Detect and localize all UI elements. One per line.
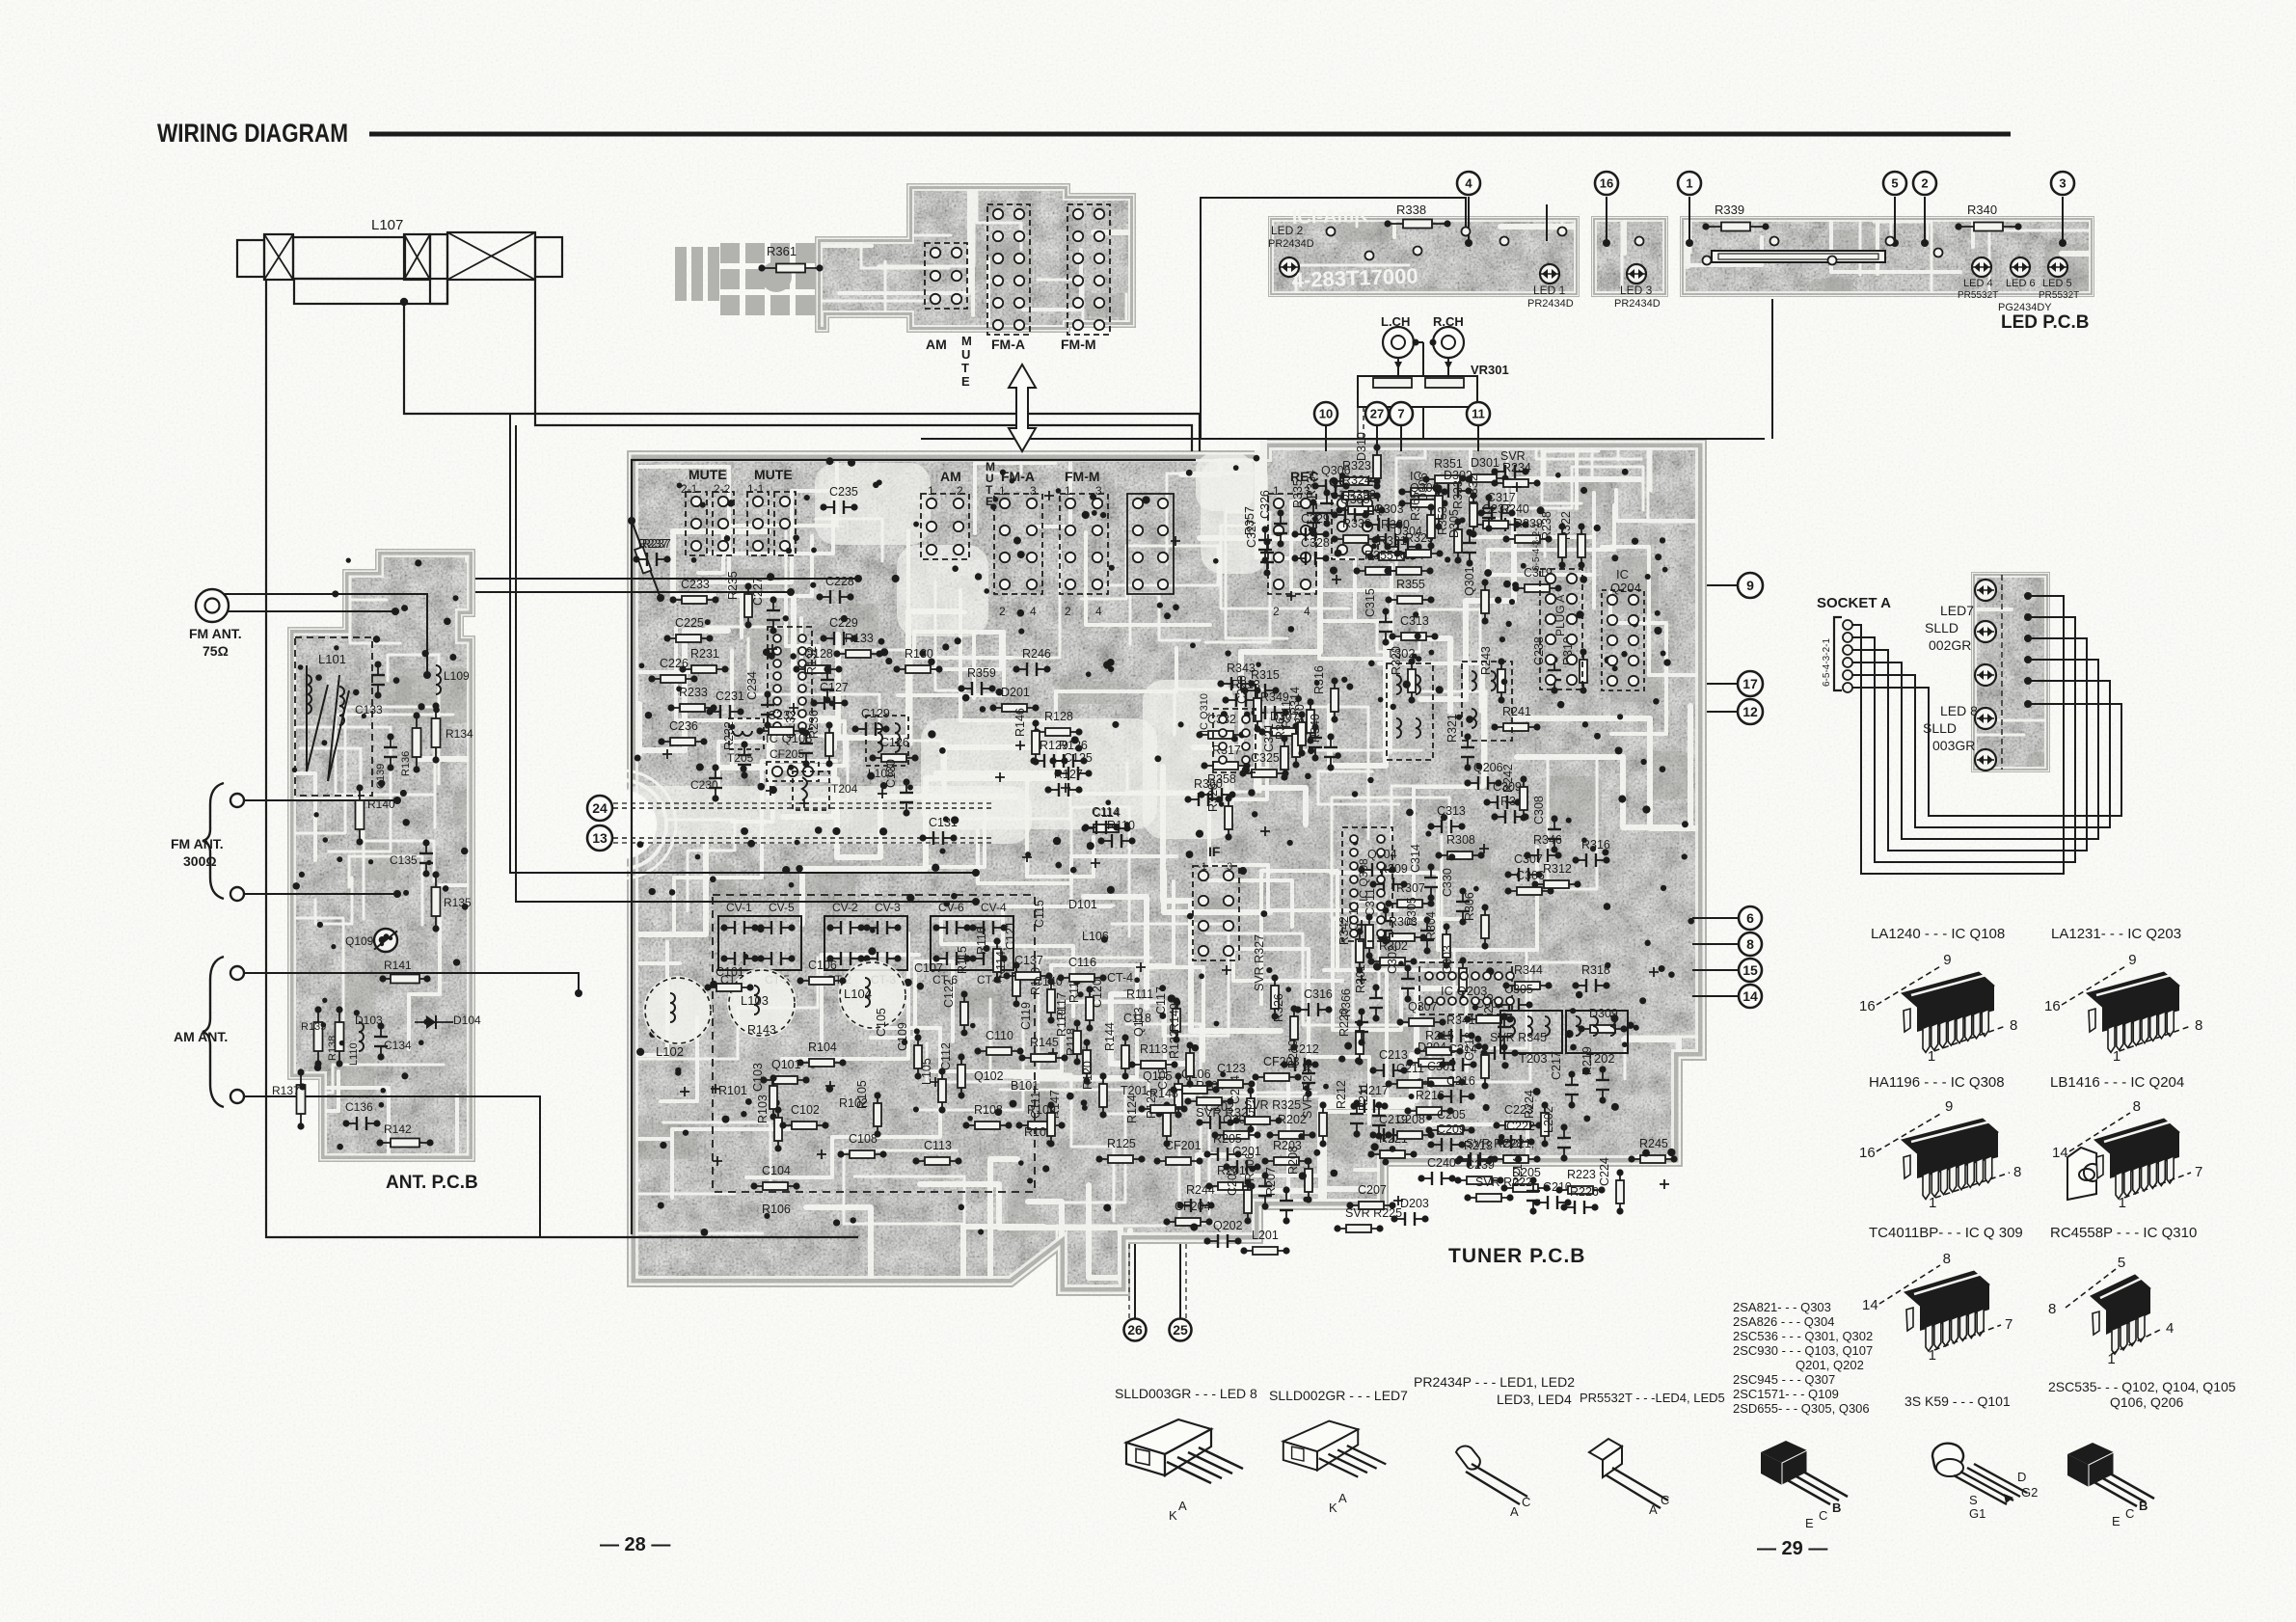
svg-text:C122: C122 [942,979,956,1008]
svg-text:R144: R144 [1103,1022,1117,1051]
svg-text:C233: C233 [681,578,710,591]
PCB region led2 [1497,81,1734,353]
svg-text:R340: R340 [1967,203,1997,217]
svg-text:D: D [2017,1470,2026,1484]
svg-text:C217: C217 [1550,1051,1563,1080]
resistor R137 [300,1072,302,1126]
svg-text:C133: C133 [355,703,383,716]
svg-text:C121: C121 [1004,921,1017,950]
svg-text:7: 7 [1397,407,1404,421]
svg-text:C305: C305 [1504,983,1533,996]
svg-text:FM ANT.: FM ANT. [171,836,224,852]
svg-text:2SC1571- - - Q109: 2SC1571- - - Q109 [1733,1387,1839,1401]
svg-text:C235: C235 [829,485,858,499]
svg-text:7: 7 [2195,1164,2202,1180]
connector block AM (top) [925,243,967,309]
wire L107 to tuner top [404,304,1200,451]
svg-text:R331: R331 [1378,534,1407,548]
svg-text:SLLD003GR - - - LED 8: SLLD003GR - - - LED 8 [1115,1386,1257,1401]
connector block FM-A (top) [987,204,1030,335]
svg-text:C308: C308 [1532,796,1546,825]
svg-text:C106: C106 [808,959,837,972]
svg-text:HA1196 - - - IC Q308: HA1196 - - - IC Q308 [1869,1074,2005,1091]
svg-text:C231: C231 [716,689,744,703]
T204 [793,771,829,810]
L102 [643,976,713,1045]
svg-text:PR2434D: PR2434D [1527,298,1574,310]
svg-text:R143: R143 [747,1023,776,1037]
connector block FM-A [994,494,1042,594]
svg-text:L110: L110 [348,1042,360,1066]
svg-text:C126: C126 [880,736,909,749]
svg-text:C314: C314 [1409,844,1422,873]
svg-text:L105: L105 [920,1058,933,1085]
svg-text:T203: T203 [1519,1051,1548,1066]
svg-text:A: A [1178,1499,1187,1513]
svg-text:R238: R238 [1540,511,1553,540]
svg-text:D305: D305 [1447,509,1461,538]
svg-text:D203: D203 [1400,1197,1429,1210]
svg-text:D301: D301 [1471,456,1499,470]
svg-text:11: 11 [1472,407,1485,421]
wire left vertical run [266,279,858,1237]
svg-text:C232: C232 [768,709,797,722]
brace fm300 [203,783,224,899]
svg-text:TUNER P.C.B: TUNER P.C.B [1448,1245,1585,1267]
svg-text:PR5532T: PR5532T [2039,290,2079,301]
PCB region ant [115,450,581,1338]
svg-text:2SC930 - - - Q103, Q107: 2SC930 - - - Q103, Q107 [1733,1343,1873,1358]
svg-text:C209: C209 [1437,1122,1466,1136]
circled callouts top [1457,172,1480,195]
svg-text:C111: C111 [1029,1092,1042,1119]
resistor R138 [338,1010,340,1064]
connector block AM [921,494,969,559]
svg-text:R242: R242 [1501,764,1515,793]
svg-text:R125: R125 [1107,1137,1136,1150]
svg-text:C102: C102 [791,1103,820,1117]
svg-text:C114: C114 [1092,805,1120,819]
svg-text:1: 1 [928,484,934,498]
svg-text:2SC945 - - - Q307: 2SC945 - - - Q307 [1733,1372,1835,1387]
led strip pads [1327,228,1336,236]
svg-text:K: K [1329,1500,1337,1515]
svg-text:R308: R308 [1446,833,1475,847]
svg-text:R119: R119 [1055,1009,1068,1037]
svg-text:25: 25 [1173,1322,1188,1338]
capacitor C133 [377,664,379,675]
svg-text:R243: R243 [1479,646,1493,675]
svg-text:C125: C125 [1064,751,1093,765]
resistor R135 [435,875,437,929]
svg-text:L201: L201 [1252,1229,1279,1242]
svg-text:R236: R236 [807,710,821,739]
svg-text:10: 10 [1319,407,1333,421]
svg-text:C208: C208 [1396,1113,1425,1126]
terminal FM ANT 300 [230,794,244,807]
wire right vertical [1771,299,1773,439]
svg-text:CV-5: CV-5 [769,901,795,914]
svg-text:LED 8: LED 8 [1940,703,1978,718]
svg-text:C320: C320 [1235,675,1249,704]
svg-text:L104: L104 [844,987,872,1001]
svg-text:8: 8 [2010,1017,2017,1034]
svg-text:L101: L101 [318,652,346,666]
resistor R340 [1958,226,2018,228]
TO92 for list [1761,1441,1848,1504]
svg-text:C115: C115 [1033,900,1046,928]
svg-text:CT-4: CT-4 [1107,971,1133,985]
svg-text:6-5-4-3-2-1: 6-5-4-3-2-1 [1531,523,1542,571]
IC Q308 block [1342,827,1392,941]
svg-text:C216: C216 [1446,1074,1475,1088]
3SK59 drawing [1932,1444,2027,1504]
svg-text:C303: C303 [1441,945,1454,974]
svg-text:LED7: LED7 [1940,603,1974,618]
svg-text:C205: C205 [1437,1108,1466,1122]
svg-text:Q105: Q105 [1143,1069,1173,1083]
wire junction [400,298,408,306]
svg-text:R127: R127 [1054,768,1083,781]
svg-text:C129: C129 [861,707,890,720]
svg-text:FM ANT.: FM ANT. [189,626,242,641]
svg-text:14: 14 [1862,1297,1878,1313]
svg-text:R223: R223 [1567,1168,1596,1181]
svg-text:A: A [1510,1504,1519,1519]
svg-text:PR2434D: PR2434D [1614,298,1661,310]
svg-text:8: 8 [1943,1251,1951,1267]
svg-text:LED 3: LED 3 [1620,284,1653,297]
svg-text:U: U [961,347,970,362]
inductor L110 [359,1022,364,1032]
svg-text:26: 26 [1127,1322,1143,1338]
top fragment pad grid [720,243,740,263]
IC Q108 [768,627,812,729]
svg-text:R205: R205 [1213,1132,1242,1146]
svg-text:L106: L106 [1082,930,1109,943]
svg-text:FM-A: FM-A [1001,469,1035,484]
svg-text:7: 7 [2005,1316,2012,1333]
svg-text:C137: C137 [1014,954,1043,967]
svg-text:CV-6: CV-6 [938,901,964,914]
svg-text:C207: C207 [1358,1183,1387,1197]
svg-text:9: 9 [1945,1098,1953,1115]
svg-text:R365: R365 [1409,492,1422,521]
svg-text:R333: R333 [1451,480,1465,509]
svg-text:R244: R244 [1186,1183,1215,1197]
svg-text:3: 3 [1227,861,1232,873]
svg-text:C107: C107 [914,961,943,975]
IC LA1240 drawing [1877,966,1940,1005]
VR301 pots [1358,376,1477,407]
svg-text:14: 14 [1742,988,1758,1004]
svg-text:L103: L103 [741,993,769,1008]
svg-text:D201: D201 [1001,686,1030,699]
inductor L107 structure [237,240,264,277]
T203 T202 [1500,1011,1562,1053]
capacitor C135 [425,843,427,853]
svg-text:4: 4 [1030,605,1037,618]
svg-text:3S K59 - - - Q101: 3S K59 - - - Q101 [1904,1393,2011,1409]
svg-text:C218: C218 [1463,1032,1476,1061]
svg-text:R110: R110 [1107,819,1135,832]
svg-text:D101: D101 [1068,898,1097,911]
svg-text:C307: C307 [1514,852,1543,866]
svg-text:FM-M: FM-M [1065,469,1100,484]
svg-text:300Ω: 300Ω [183,853,217,869]
svg-text:R235: R235 [726,571,740,600]
resistor R361 [762,267,820,269]
light patches tuner [568,439,1268,879]
svg-text:R113,: R113, [1140,1042,1171,1056]
svg-text:4: 4 [1465,176,1472,191]
svg-text:C302: C302 [1386,945,1399,974]
svg-text:3: 3 [1030,484,1037,498]
svg-text:WIRING DIAGRAM: WIRING DIAGRAM [157,119,348,148]
svg-text:4-283T17000: 4-283T17000 [1291,263,1418,292]
svg-text:E: E [2112,1514,2120,1528]
svg-text:C: C [2125,1506,2134,1521]
svg-text:— 28 —: — 28 — [600,1534,670,1555]
svg-text:R326: R326 [1272,993,1285,1022]
svg-text:C103: C103 [751,1063,765,1092]
svg-text:R361: R361 [767,244,797,258]
svg-text:C226: C226 [660,657,689,670]
svg-text:1: 1 [1065,484,1071,498]
svg-text:C327: C327 [1245,519,1258,548]
svg-text:C236: C236 [669,719,698,733]
svg-text:ICI-AmK: ICI-AmK [1291,204,1368,229]
capacitor C134 [380,1026,382,1037]
svg-text:Q204: Q204 [1610,581,1641,595]
svg-text:IF: IF [1208,844,1221,859]
plus marks [1136,962,1146,972]
resistor R136 [416,716,418,770]
svg-text:1: 1 [1929,1195,1936,1211]
svg-text:2: 2 [999,605,1006,618]
svg-text:PR5532T: PR5532T [1958,290,1998,301]
svg-text:R312: R312 [1543,862,1572,876]
PCB region tuner [504,327,1746,1619]
svg-text:C127: C127 [820,681,849,694]
svg-text:R124: R124 [1125,1095,1139,1123]
svg-text:LB1416 - - - IC Q204: LB1416 - - - IC Q204 [2050,1074,2184,1091]
svg-text:L202: L202 [1542,1106,1555,1133]
svg-text:R304: R304 [1424,911,1438,940]
svg-text:C108: C108 [849,1132,878,1146]
svg-text:R215: R215 [1425,1029,1454,1042]
svg-text:4: 4 [1304,605,1310,618]
svg-text:AM ANT.: AM ANT. [174,1029,228,1044]
svg-text:R108: R108 [974,1103,1003,1117]
svg-text:RC4558P - - - IC Q310: RC4558P - - - IC Q310 [2050,1225,2197,1241]
svg-text:1: 1 [2113,1048,2120,1065]
T302 box [1387,663,1433,760]
svg-text:C224: C224 [1598,1157,1611,1186]
svg-text:MUTE: MUTE [689,467,727,482]
svg-text:SLLD002GR - - - LED7: SLLD002GR - - - LED7 [1269,1388,1408,1403]
svg-text:R335: R335 [1291,479,1305,508]
svg-text:C225: C225 [675,616,704,630]
svg-text:13: 13 [592,830,608,846]
inductor L101 dashed box [295,637,372,796]
svg-text:R346: R346 [1533,833,1562,847]
svg-text:A: A [1338,1491,1347,1505]
svg-text:IC Q310: IC Q310 [1199,693,1210,733]
svg-text:R148: R148 [1149,1087,1178,1100]
svg-text:15: 15 [1742,962,1758,978]
svg-text:MUTE: MUTE [754,467,793,482]
brace am [203,957,224,1107]
svg-text:R207: R207 [1264,1167,1278,1196]
svg-text:IC Q308: IC Q308 [1357,858,1370,902]
svg-text:C328: C328 [1301,536,1330,550]
PCB region sock [1882,384,2182,807]
svg-text:S: S [1969,1493,1978,1507]
solder dots [975,573,982,580]
PCB region led3 [1598,119,2117,501]
title rule [369,132,2011,137]
svg-text:AM: AM [940,469,961,484]
svg-text:C221,: C221, [1502,1137,1534,1150]
svg-text:R140: R140 [367,797,395,811]
IC RC4558P drawing [2066,1269,2116,1308]
svg-text:LA1231- - - IC Q203: LA1231- - - IC Q203 [2051,926,2181,942]
svg-text:TC4011BP- - - IC Q 309: TC4011BP- - - IC Q 309 [1869,1225,2023,1241]
IC LB1416 drawing [2069,1113,2130,1151]
svg-text:L109: L109 [444,669,470,683]
T205 [729,718,764,749]
connector block REC [1268,494,1316,594]
slot [1712,251,1885,262]
svg-text:E: E [961,374,970,389]
connector block MUTE 2 [686,492,707,555]
svg-text:5: 5 [2118,1255,2125,1271]
svg-text:2: 2 [1065,605,1071,618]
transistor Q109 [374,929,397,952]
svg-text:27: 27 [1370,407,1384,421]
IC LA1231 drawing [2062,966,2125,1005]
svg-text:R208: R208 [1286,1146,1300,1175]
svg-text:16: 16 [2044,998,2061,1014]
svg-text:R355: R355 [1396,578,1425,591]
svg-text:24: 24 [592,800,608,816]
L104 [838,960,907,1030]
L108 [866,716,908,766]
svg-text:R241: R241 [1502,705,1531,718]
svg-text:C234: C234 [745,671,759,700]
svg-text:Q301: Q301 [1463,566,1476,596]
svg-text:CV-3: CV-3 [875,901,901,914]
svg-text:C136: C136 [345,1100,373,1114]
svg-text:R307: R307 [1396,881,1425,895]
circled callouts left/top/right [1314,402,1337,425]
svg-text:5: 5 [1891,176,1898,191]
svg-text:CV-2: CV-2 [832,901,858,914]
svg-text:3: 3 [1095,484,1102,498]
svg-text:R116: R116 [975,927,988,955]
svg-text:6: 6 [1746,910,1754,926]
svg-text:A: A [1649,1502,1658,1517]
svg-text:C: C [1522,1495,1530,1509]
svg-text:4: 4 [1095,605,1102,618]
svg-text:R316: R316 [1312,665,1326,694]
connector block FM-M [1060,494,1108,594]
wire pair to PCB middle [510,414,976,873]
svg-text:C105: C105 [875,1008,888,1037]
svg-text:1: 1 [999,484,1006,498]
svg-text:1-1: 1-1 [747,482,765,496]
svg-text:T205: T205 [727,751,754,765]
svg-text:16: 16 [1859,998,1876,1014]
svg-text:R122: R122 [1168,1030,1181,1059]
svg-text:3: 3 [2059,176,2066,191]
wire inner frame [632,460,1196,1234]
svg-text:FM-M: FM-M [1061,337,1096,352]
svg-text:D310: D310 [1355,432,1368,461]
svg-text:R211: R211 [1357,1083,1370,1111]
svg-text:R130: R130 [905,647,933,661]
svg-text:R344: R344 [1514,963,1543,977]
resistor R338 [1388,223,1447,225]
connector block QUARZ [1332,494,1378,559]
wires to VR301 [1414,341,1423,343]
svg-text:R233: R233 [679,686,708,699]
svg-text:E: E [1805,1516,1814,1530]
wires ANT to tuner [475,578,858,580]
svg-text:2SC536 - - - Q301, Q302: 2SC536 - - - Q301, Q302 [1733,1329,1873,1343]
svg-text:-1: -1 [1198,861,1207,873]
svg-text:C119: C119 [1019,1002,1033,1030]
svg-text:C321: C321 [1262,723,1276,752]
L103 [727,968,797,1038]
LED4 [1972,257,1991,277]
svg-text:R146: R146 [1013,708,1027,737]
svg-text:SVR R325: SVR R325 [1196,1105,1255,1120]
svg-text:C120: C120 [1091,979,1104,1008]
svg-text:C316: C316 [1304,987,1333,1001]
svg-text:C140: C140 [1034,975,1063,988]
svg-text:R246: R246 [1022,647,1051,661]
svg-text:1: 1 [2107,1351,2115,1367]
svg-text:1: 1 [1928,1048,1935,1065]
svg-text:C: C [1661,1493,1669,1507]
svg-text:B: B [1832,1500,1841,1515]
socket wiring loops [1852,596,2064,874]
svg-text:G1: G1 [1969,1506,1985,1521]
svg-text:R120: R120 [1081,1061,1094,1090]
svg-text:Q201, Q202: Q201, Q202 [1796,1358,1864,1372]
svg-text:R149: R149 [1168,1003,1181,1032]
L101 coils [307,665,328,771]
svg-text:T302: T302 [1387,646,1416,661]
svg-text:R339: R339 [1715,203,1744,217]
svg-text:C101: C101 [716,965,744,979]
connector FM ANT 75ohm [196,589,229,622]
svg-text:R103: R103 [756,1095,770,1123]
svg-text:CV-4: CV-4 [981,901,1007,914]
svg-text:8: 8 [2133,1098,2141,1115]
svg-text:R332: R332 [1467,474,1480,503]
jack R.CH [1433,327,1464,358]
svg-text:2-1: 2-1 [681,482,698,496]
svg-text:CF205: CF205 [770,747,804,761]
svg-text:FM-A: FM-A [991,337,1025,352]
svg-text:2SA821- - - Q303: 2SA821- - - Q303 [1733,1300,1831,1314]
svg-text:B: B [2139,1499,2147,1513]
svg-text:4: 4 [2166,1320,2174,1337]
PR5532 drawing [1589,1439,1668,1508]
